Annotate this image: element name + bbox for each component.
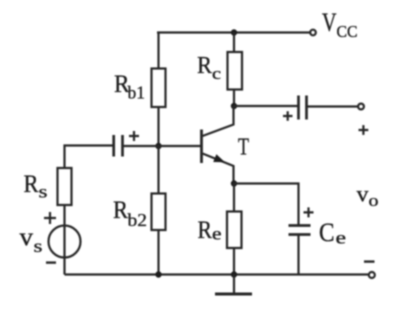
label plus C1 [129,131,139,141]
label Re [198,217,222,244]
label Rb2 [113,197,147,230]
resistor Re [227,212,242,249]
svg-text:v: v [20,224,34,251]
node junction above Rc [231,29,237,35]
svg-text:T: T [238,135,249,161]
capacitor C1 input coupling [114,135,123,157]
svg-text:R: R [113,197,128,224]
wire C2 to output terminal [308,105,359,107]
source vs circle [49,226,81,258]
capacitor C2 output coupling [299,96,307,120]
wire input top (source branch to C1) [65,146,114,169]
ground [215,275,252,295]
wire emitter to Ce branch [234,184,299,226]
svg-text:c: c [212,64,222,83]
terminal output top open circle [358,104,364,110]
label vs [20,224,43,256]
svg-text:V: V [322,8,337,37]
svg-text:R: R [24,171,39,198]
svg-text:s: s [39,182,48,202]
resistor Rb2 [152,194,166,231]
wire emitter node to Re [233,184,235,212]
label Vcc [322,8,358,41]
svg-text:v: v [357,182,370,207]
capacitor Ce [289,226,311,275]
wire bottom ground bus [65,273,370,275]
svg-text:e: e [336,228,347,248]
svg-text:C: C [319,218,335,247]
wire Rb1 bottom to base node [157,107,159,146]
wire Rb2 bottom to ground bus [157,230,159,275]
label Rc [197,53,222,83]
wire collector to output cap [234,105,298,107]
label plus vs [44,212,56,224]
wire base wire [123,145,201,147]
label plus Ce [304,207,314,217]
wire Rc bottom to collector node [233,90,235,107]
wire through source [63,226,65,275]
svg-text:b2: b2 [128,210,148,230]
label minus output [364,260,375,262]
terminal Vcc open circle [310,30,316,36]
terminal output bottom open circle [369,272,375,278]
svg-text:e: e [212,224,222,244]
node junction Re bottom [231,271,237,277]
transistor T [202,106,234,184]
label Rb1 [114,71,145,103]
wire base node to Rb2 [157,146,159,194]
node junction Rb2 bottom [155,271,161,277]
svg-text:R: R [197,53,212,79]
label Ce [319,218,346,248]
wire Rb1 top (bus to Rb1) [157,33,159,69]
svg-text:s: s [34,236,43,256]
label vo [357,182,379,211]
svg-text:b1: b1 [128,83,146,103]
node base junction [155,143,161,149]
resistor Rc [228,52,243,90]
resistor Rs [58,168,72,205]
svg-text:CC: CC [337,22,358,41]
label plus output [359,125,369,135]
node emitter junction [231,180,237,186]
wire top supply bus [157,31,311,33]
wire Rc top (bus to Rc) [233,33,235,53]
resistor Rb1 [152,69,166,108]
wire Re bottom to ground bus [233,248,235,275]
svg-text:R: R [198,217,213,244]
label minus vs [46,261,56,263]
label T [238,135,249,161]
node collector junction [231,103,237,109]
svg-text:o: o [369,191,379,210]
label plus C2 [283,111,293,121]
wire Rs to source vs [63,205,65,226]
label Rs [24,171,48,202]
